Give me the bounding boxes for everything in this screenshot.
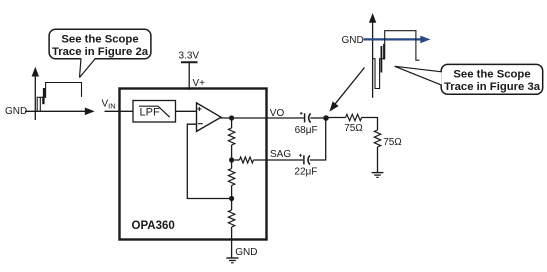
svg-text:OPA360: OPA360: [132, 220, 175, 232]
svg-text:GND: GND: [5, 106, 27, 117]
svg-text:See the Scope: See the Scope: [61, 33, 138, 45]
svg-text:SAG: SAG: [270, 149, 291, 160]
svg-text:Trace in Figure 2a: Trace in Figure 2a: [52, 46, 149, 58]
svg-text:V+: V+: [193, 78, 206, 89]
svg-text:See the Scope: See the Scope: [453, 68, 530, 80]
svg-text:75Ω: 75Ω: [383, 137, 402, 148]
svg-text:LPF: LPF: [140, 107, 160, 119]
svg-text:GND: GND: [342, 35, 364, 46]
svg-text:3.3V: 3.3V: [179, 51, 200, 62]
svg-text:GND: GND: [235, 247, 257, 258]
svg-text:75Ω: 75Ω: [344, 123, 363, 134]
svg-text:Trace in Figure 3a: Trace in Figure 3a: [444, 81, 541, 93]
svg-text:68μF: 68μF: [295, 125, 318, 136]
svg-text:VO: VO: [270, 108, 285, 119]
svg-text:22μF: 22μF: [294, 166, 317, 177]
